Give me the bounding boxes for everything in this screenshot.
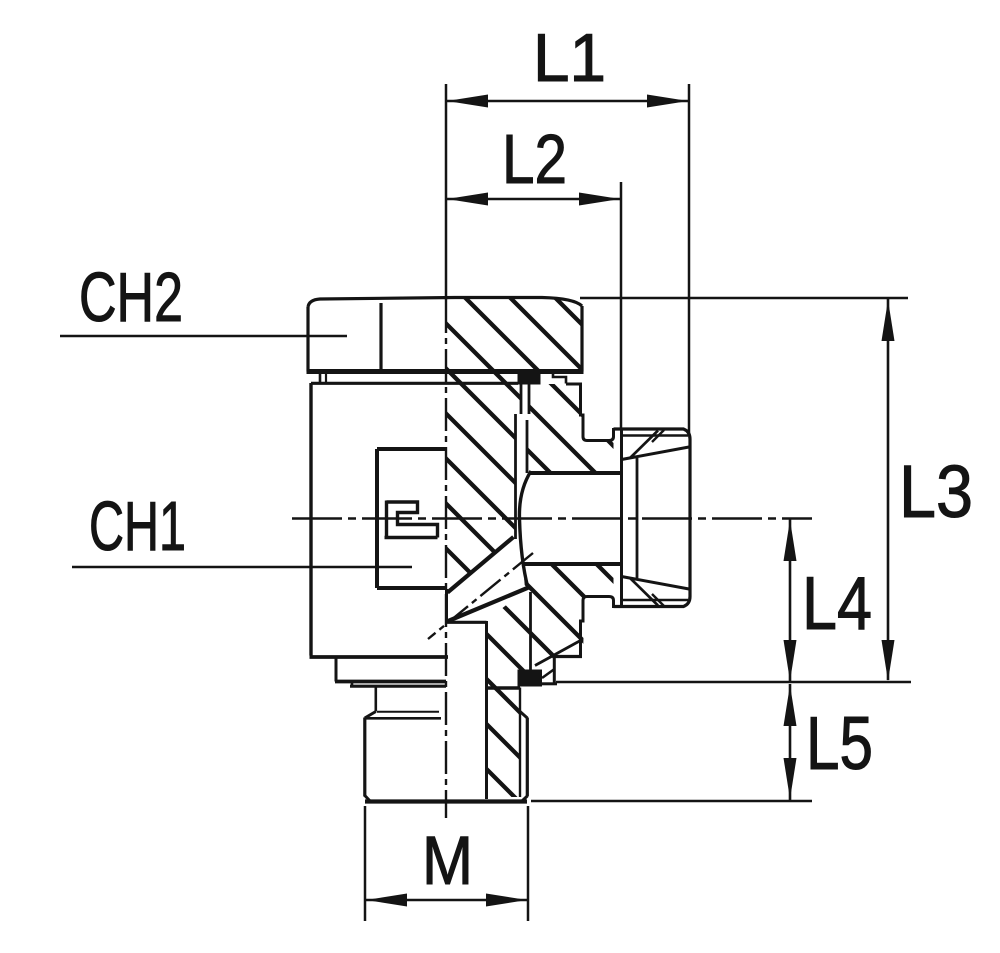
L3 extension line top [580, 297, 908, 300]
M dimension line [365, 899, 528, 902]
swivel nut left face edge [620, 428, 623, 608]
swivel ball curve [519, 471, 531, 588]
wire angled passage centerline dash-dot [428, 553, 533, 639]
swivel nut chamfer cone bottom [622, 577, 690, 590]
L4 arrow top [784, 520, 797, 561]
body bore wall mid [526, 420, 529, 473]
wire vertical centerline upper (L1/L2 extension) [445, 84, 448, 300]
seal recess step lower [553, 656, 556, 684]
svg-text:L1: L1 [533, 20, 606, 96]
L4 dimension line [789, 519, 792, 682]
bolt head bottom edge (thick) [307, 369, 584, 374]
swivel nut facet line [636, 458, 639, 578]
CH2 leader line [60, 335, 347, 338]
L1 dimension line [446, 100, 689, 103]
stud chamfer bottom left [365, 796, 371, 802]
M extension line right [527, 806, 530, 921]
washer left edge [319, 373, 322, 383]
L3 arrow top [882, 300, 895, 341]
port tube top edge (thick) [530, 471, 620, 475]
L3 arrow bottom [882, 640, 895, 681]
thread spiral symbol bottom [385, 536, 438, 539]
L1 arrow right [647, 95, 688, 108]
side port lower neck and body edge [581, 597, 614, 657]
swivel nut chamfer tick top [652, 430, 664, 442]
bolt shank right surface upper [520, 384, 523, 414]
CH1 leader line [72, 566, 412, 569]
stud major diameter right [526, 718, 529, 797]
lower washer face left (thick) [350, 685, 446, 688]
L2 arrow right [579, 193, 620, 206]
stud thread runout left [365, 712, 376, 719]
seal recess step outline [541, 372, 567, 384]
body bore wall upper [528, 384, 531, 414]
L2 arrow left [447, 193, 488, 206]
boss step left edge [335, 656, 338, 682]
wire vertical centerline dash-dot [445, 300, 447, 818]
bolt head facet line [379, 303, 382, 371]
stud major diameter left [363, 718, 366, 797]
thread spiral symbol left [385, 501, 388, 540]
passage end bottom edge [447, 621, 487, 624]
seal recess chamfer lower [542, 669, 555, 678]
washer lower left edge [351, 683, 354, 687]
boss chamfer line lower [535, 641, 581, 666]
svg-text:L2: L2 [502, 120, 567, 198]
M arrow left [366, 894, 407, 907]
L5 extension line bottom [531, 800, 812, 803]
L3 dimension line [887, 299, 890, 680]
L5 dimension line [789, 684, 792, 800]
svg-text:M: M [422, 822, 473, 899]
wire horizontal centerline dash-dot [292, 517, 812, 519]
L1 extension line right [688, 84, 691, 434]
stud thread crest line [366, 717, 441, 720]
M arrow right [486, 894, 527, 907]
L2 dimension line [446, 198, 621, 201]
L5 arrow top [784, 685, 797, 726]
bore wall lower [485, 621, 488, 799]
body bottom edge [310, 655, 449, 659]
bolt shank right surface mid [514, 414, 517, 539]
seal ring top (black square) [518, 370, 541, 385]
body lower step edge [554, 655, 582, 658]
bolt head right edge [580, 306, 583, 372]
body facet bottom edge [377, 586, 446, 590]
L4/L3 extension line bottom [556, 681, 911, 684]
swivel nut outline [614, 429, 691, 607]
body facet left edge [375, 449, 379, 588]
bolt head top edge (crowned) [308, 298, 582, 308]
L2 extension line right [620, 182, 623, 428]
thread spiral symbol outer [387, 502, 438, 538]
body bottom face right of seal [542, 682, 557, 685]
seal ring bottom (black square) [518, 670, 543, 687]
boss step bottom edge (thick) [335, 680, 446, 684]
washer inner edge [325, 373, 327, 383]
stud thread transition line [377, 711, 439, 713]
swivel nut chamfer arc top [631, 431, 659, 458]
svg-text:CH1: CH1 [89, 487, 186, 565]
port tube bottom edge (thick) [524, 562, 620, 566]
swivel nut top chamfer ring edge [622, 434, 689, 437]
svg-text:L4: L4 [802, 561, 872, 645]
stud bottom edge (thick) [365, 799, 527, 803]
swivel nut chamfer tick bottom [652, 594, 664, 606]
stud thread runout right [520, 712, 527, 719]
passage end left edge [445, 589, 448, 623]
M extension line left [364, 806, 367, 921]
svg-text:L3: L3 [899, 450, 973, 533]
stud chamfer bottom right [522, 796, 528, 802]
swivel nut bottom chamfer ring edge [622, 599, 689, 602]
bolt head left edge [306, 307, 309, 372]
L1 arrow left [447, 95, 488, 108]
svg-text:L5: L5 [806, 701, 873, 785]
lower washer face right (thick) [486, 686, 520, 690]
L5 arrow bottom [784, 758, 797, 799]
body left edge [309, 383, 312, 656]
body facet top edge [377, 447, 446, 451]
body top edge right of seal recess [566, 383, 582, 386]
angled passage lower edge (thick) [447, 588, 529, 622]
swivel nut chamfer arc bottom [631, 579, 659, 606]
stud thread relief left [374, 686, 377, 712]
body bore wall lower [529, 592, 532, 670]
swivel nut chamfer cone top [622, 447, 690, 460]
side port upper neck profile [581, 384, 614, 441]
angled passage upper edge (thick) [448, 537, 514, 593]
L4 arrow bottom [784, 640, 797, 681]
body top edge [311, 382, 518, 385]
stud minor diameter right [519, 688, 521, 798]
svg-text:CH2: CH2 [79, 258, 183, 336]
